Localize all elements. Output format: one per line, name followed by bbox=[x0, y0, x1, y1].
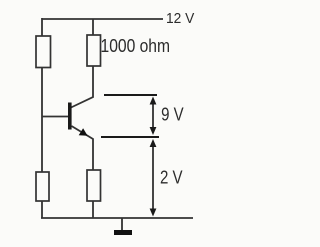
svg-text:12 V: 12 V bbox=[166, 11, 195, 27]
svg-text:9 V: 9 V bbox=[161, 104, 184, 125]
svg-text:2 V: 2 V bbox=[160, 166, 183, 187]
svg-text:1000 ohm: 1000 ohm bbox=[101, 35, 171, 56]
